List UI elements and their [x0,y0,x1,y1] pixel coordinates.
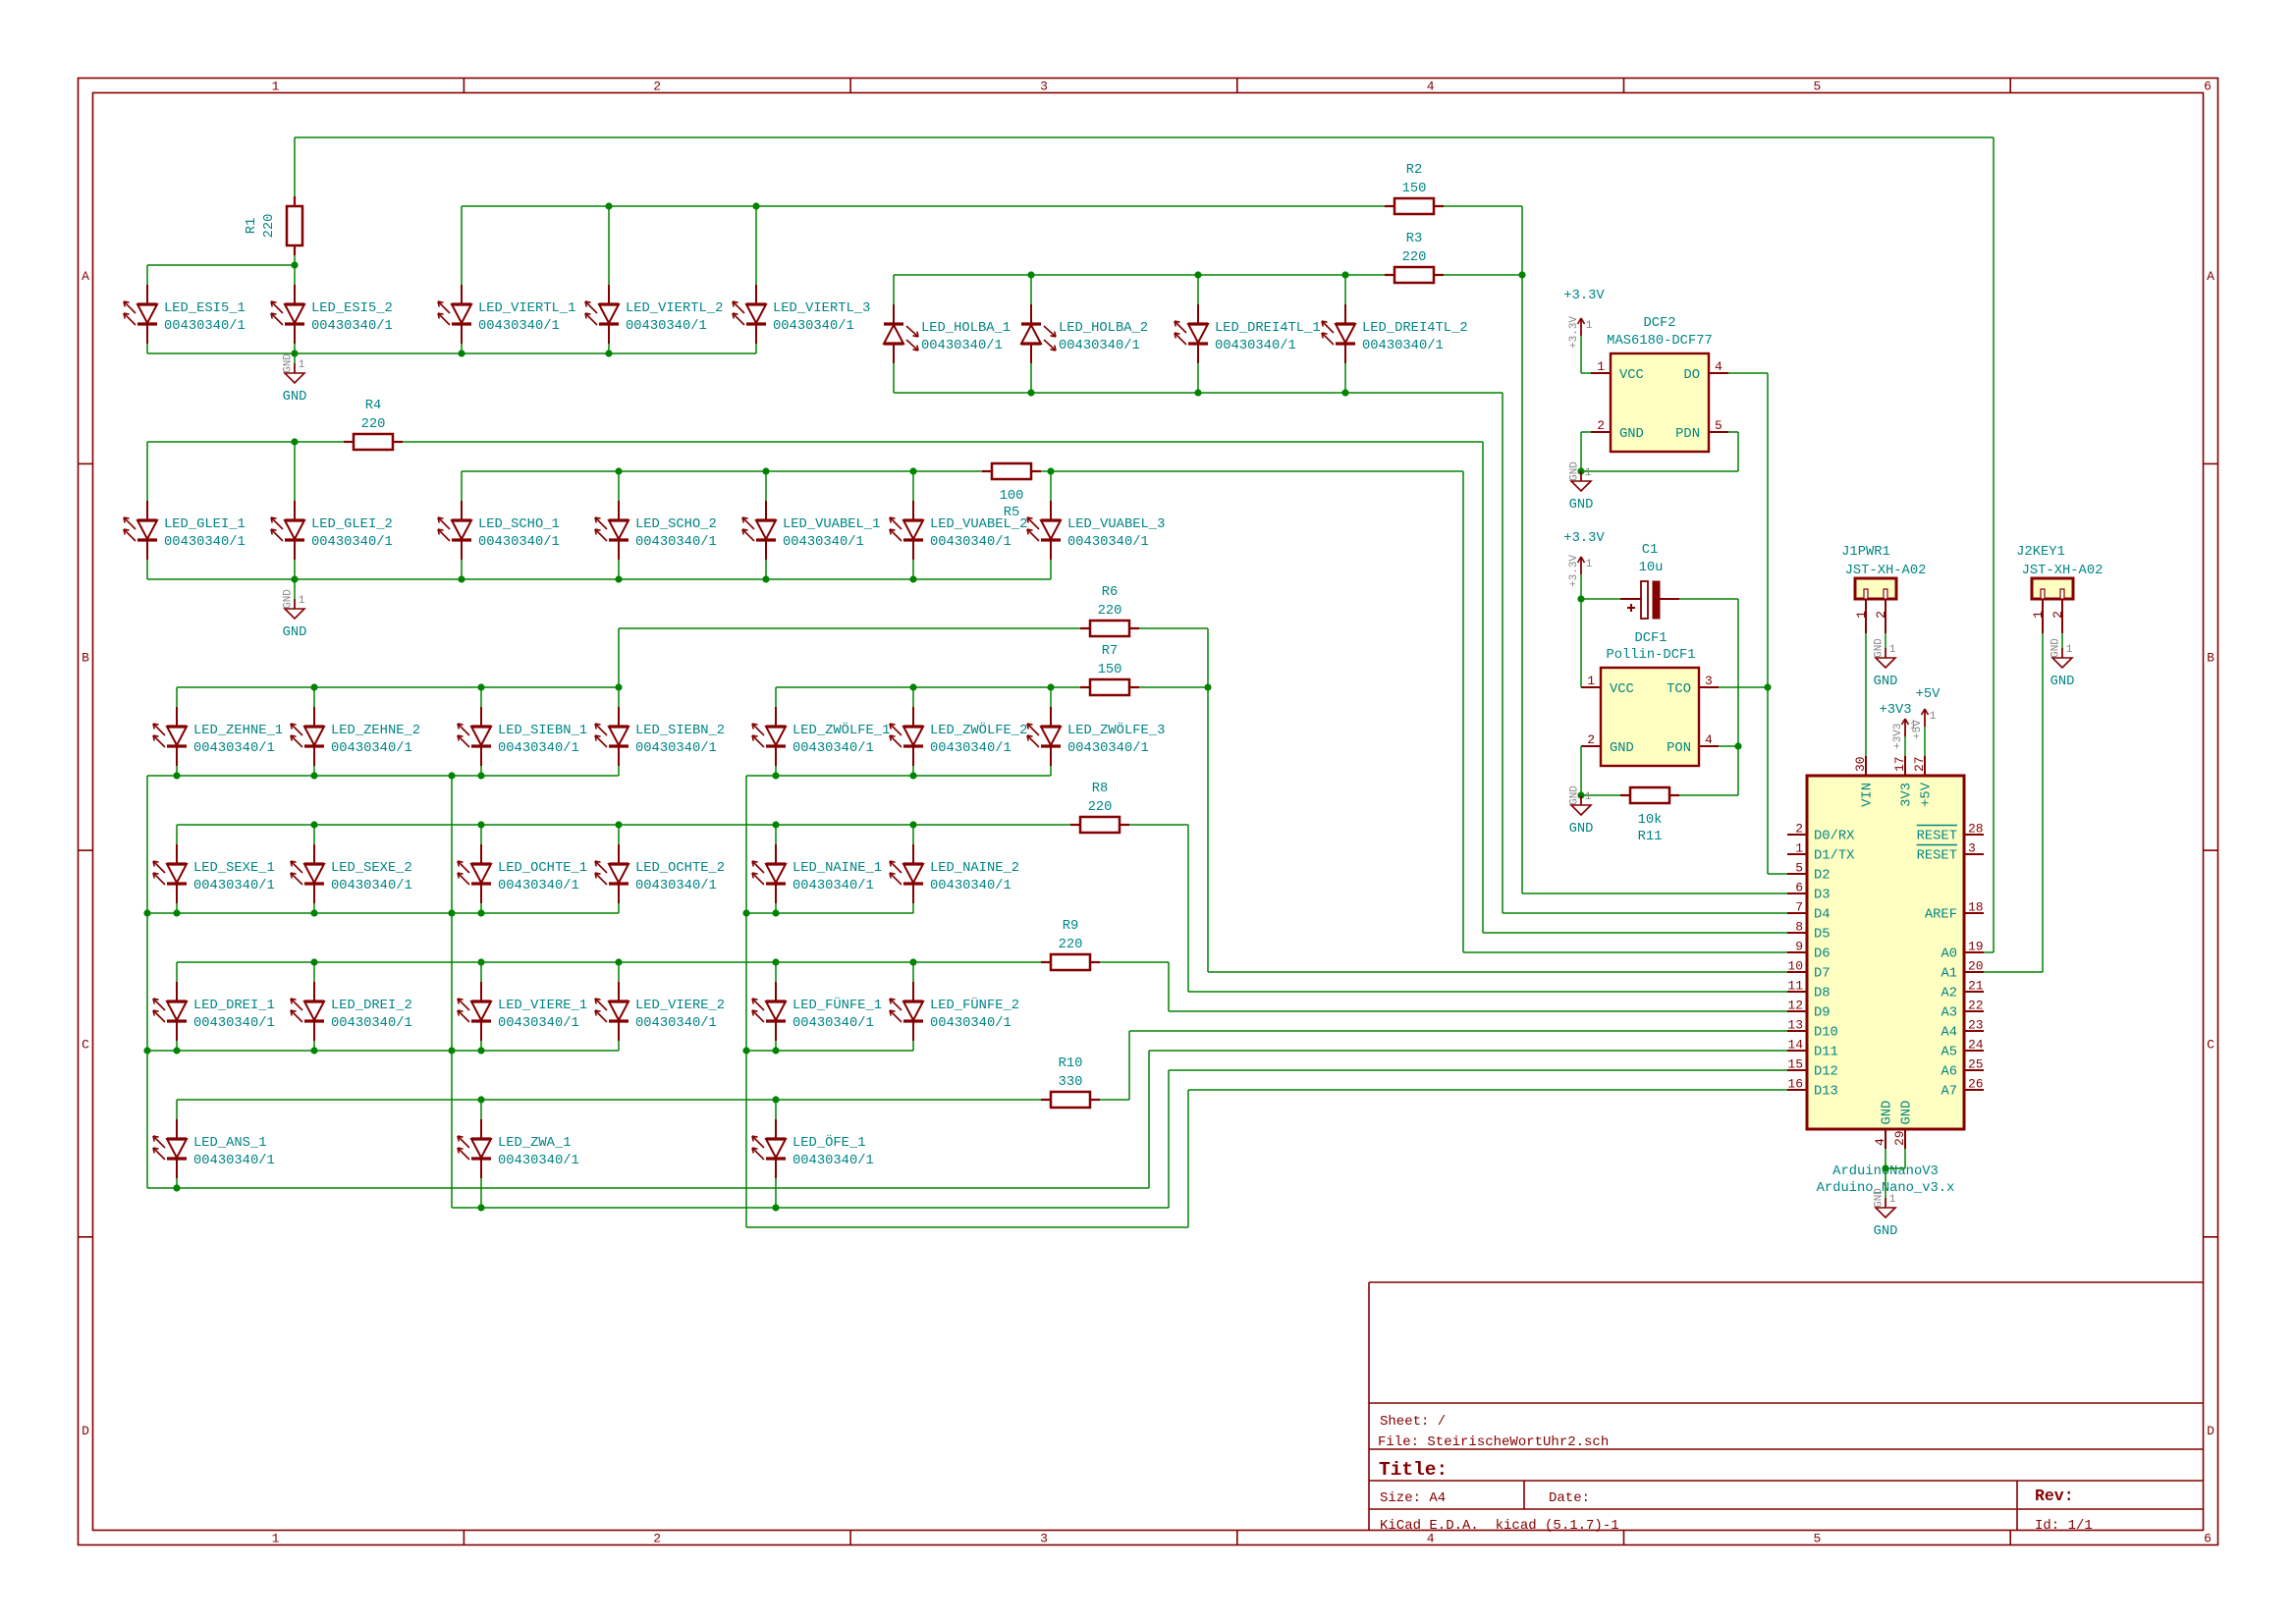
wire R6 out [1139,627,1208,629]
wire ANS cathode drop [176,1178,178,1188]
wire R10 out [1100,1099,1129,1101]
wire SCHO anode bus [462,470,982,472]
svg-text:5: 5 [1813,1532,1821,1546]
svg-text:GND: GND [1900,1101,1915,1125]
svg-text:LED_ZWÖLFE_1: LED_ZWÖLFE_1 [793,721,890,738]
svg-text:B: B [2207,651,2214,666]
LED LED_ZEHNE_1 [153,707,283,766]
junction [477,1204,484,1211]
LED LED_ESI5_1 [124,285,246,344]
svg-text:29: 29 [1892,1130,1907,1146]
svg-text:7: 7 [1795,900,1803,915]
ArduinoNano value [1817,1180,1955,1196]
svg-text:00430340/1: 00430340/1 [793,740,874,756]
power +3V3 [1879,703,1916,749]
wire DCF2 GND bus [1581,470,1738,472]
svg-text:JST-XH-A02: JST-XH-A02 [1845,564,1927,578]
wire net D13 riser [1187,1090,1189,1227]
wire row4 cathode drop [480,903,482,913]
svg-text:LED_ÖFE_1: LED_ÖFE_1 [793,1133,866,1151]
svg-text:220: 220 [1402,250,1427,265]
svg-text:GND: GND [2050,638,2062,658]
wire ZWOELFE anode drop [912,687,914,707]
svg-text:D0/RX: D0/RX [1814,829,1855,844]
junction [477,683,484,690]
wire ZEHNE cathode drop [313,766,315,776]
junction [772,1047,779,1054]
LED LED_VIERTL_1 [438,285,575,344]
wire J1 pin1 to VIN [1865,633,1867,756]
svg-text:GND: GND [1569,785,1581,805]
wire 5V stub [1924,727,1926,756]
junction [1577,595,1584,602]
ground [1874,1188,1898,1239]
svg-text:D2: D2 [1814,869,1831,884]
resistor R8 [1070,782,1129,833]
capacitor C1 [1581,543,1738,619]
svg-text:Title:: Title: [1379,1459,1448,1481]
IC DCF2 MAS6180-DCF77 [1591,316,1728,452]
wire ZEHNE cathode drop [480,766,482,776]
svg-text:D7: D7 [1814,967,1831,982]
wire net D9 run [1169,1010,1787,1012]
svg-text:J2KEY1: J2KEY1 [2016,545,2065,560]
wire DCF2 PDN riser [1737,432,1739,471]
svg-text:00430340/1: 00430340/1 [930,534,1011,550]
svg-text:LED_NAINE_2: LED_NAINE_2 [930,861,1019,876]
svg-text:LED_HOLBA_2: LED_HOLBA_2 [1059,321,1148,336]
wire VIERTL anode bus [462,205,1385,207]
wire net D10 run [1129,1030,1787,1032]
svg-text:A2: A2 [1941,987,1957,1001]
wire row5 cathode bus A [147,1050,619,1052]
svg-text:00430340/1: 00430340/1 [498,1015,579,1031]
svg-text:10u: 10u [1639,561,1664,575]
LED LED_ZWÖLFE_2 [890,707,1027,766]
wire VUABEL_3 anode drop [1050,471,1052,501]
IC DCF1 Pollin-DCF1 [1581,631,1719,766]
LED LED_VIERTL_2 [585,285,723,344]
wire GLEI_2 anode drop [294,442,296,501]
svg-text:VIN: VIN [1861,783,1876,807]
wire row5 cathode bus B [746,1050,913,1052]
wire SCHO cathode drop [912,560,914,579]
svg-text:00430340/1: 00430340/1 [193,878,275,893]
wire GLEI anode bus [147,441,344,443]
junction [1341,271,1348,278]
junction [173,772,180,779]
svg-text:00430340/1: 00430340/1 [783,534,864,550]
svg-text:12: 12 [1787,999,1803,1013]
wire ESI5_2 anode drop [294,265,296,285]
svg-text:LED_VIERTL_2: LED_VIERTL_2 [626,301,723,316]
wire row4 cathode bus B [746,912,913,914]
junction [772,958,779,965]
svg-text:9: 9 [1795,940,1803,954]
wire net D12 riser [1168,1070,1170,1208]
wire row4 cathode drop [618,903,620,913]
svg-text:16: 16 [1787,1077,1803,1092]
wire row5 cathode drop [176,1041,178,1051]
wire J2 pin2 gnd stub [2061,633,2063,648]
svg-text:LED_ZWÖLFE_3: LED_ZWÖLFE_3 [1067,721,1165,738]
svg-text:JST-XH-A02: JST-XH-A02 [2022,564,2104,578]
svg-text:19: 19 [1968,940,1984,954]
wire net D12 run [1169,1069,1787,1071]
wire row5 cathode drop [618,1041,620,1051]
LED LED_OCHTE_2 [595,844,725,903]
junction [310,772,317,779]
svg-text:1: 1 [1889,644,1896,656]
wire DCF2 VCC riser [1580,336,1582,373]
svg-text:00430340/1: 00430340/1 [793,1153,874,1168]
wire J2 pin1 drop [2042,633,2044,972]
junction [615,467,622,474]
svg-text:GND: GND [1569,822,1594,837]
svg-text:5: 5 [1795,861,1803,876]
wire row4 cathode drop [176,903,178,913]
svg-text:3V3: 3V3 [1900,783,1915,807]
svg-text:RESET: RESET [1917,849,1957,864]
LED LED_DREI_1 [153,982,275,1041]
junction [143,909,150,916]
svg-text:LED_NAINE_1: LED_NAINE_1 [793,861,882,876]
svg-text:LED_FÜNFE_2: LED_FÜNFE_2 [930,996,1019,1013]
ground [1874,638,1898,689]
wire cathode chain x760 [745,776,747,1227]
wire chain x760 bottom run [746,1226,1188,1228]
wire HOLBA top drop [893,275,895,304]
svg-text:R8: R8 [1092,782,1109,796]
svg-text:4: 4 [1705,732,1713,747]
svg-text:00430340/1: 00430340/1 [793,878,874,893]
svg-text:00430340/1: 00430340/1 [164,318,246,334]
wire VIERTL anode drop [608,206,610,285]
svg-text:Rev:: Rev: [2035,1487,2074,1505]
wire row4 cathode drop [912,903,914,913]
svg-text:D: D [2207,1424,2214,1438]
wire row3 cathode bus B [746,775,1051,777]
svg-text:00430340/1: 00430340/1 [635,534,717,550]
svg-text:A3: A3 [1941,1006,1957,1021]
svg-text:C1: C1 [1642,543,1659,558]
wire ESI5_1 cathode [146,344,148,353]
svg-text:Date:: Date: [1549,1490,1590,1506]
wire DCF2 DO [1728,372,1768,374]
wire row4 anode drop [912,825,914,844]
svg-text:D9: D9 [1814,1006,1831,1021]
svg-text:00430340/1: 00430340/1 [635,1015,717,1031]
svg-text:GND: GND [1881,1101,1895,1125]
svg-text:00430340/1: 00430340/1 [478,318,560,334]
wire R6 riser [618,628,620,687]
svg-text:+5V: +5V [1920,782,1935,807]
svg-text:3: 3 [1040,1532,1048,1546]
svg-text:+5V: +5V [1916,687,1941,702]
wire R3 out [1444,274,1522,276]
wire net A0 riser [1993,137,1995,952]
svg-text:27: 27 [1912,756,1927,772]
resistor R10 [1041,1056,1100,1108]
junction [173,909,180,916]
junction [291,575,298,582]
svg-text:GND: GND [2050,675,2075,689]
wire row5 anode drop [912,962,914,982]
junction [477,909,484,916]
LED LED_VUABEL_2 [890,501,1027,560]
wire net D8 riser [1187,825,1189,992]
svg-text:2: 2 [1874,611,1888,619]
svg-text:5: 5 [1813,80,1821,94]
wire GLEI_1 cathode [146,560,148,579]
svg-text:J1PWR1: J1PWR1 [1841,545,1890,560]
wire net DCF riser [1767,373,1769,874]
junction [310,1047,317,1054]
svg-text:4: 4 [1715,359,1722,374]
svg-text:4: 4 [1427,80,1435,94]
svg-text:00430340/1: 00430340/1 [311,318,393,334]
wire net D9 riser [1168,962,1170,1011]
svg-text:+3.3V: +3.3V [1563,531,1605,546]
junction [1882,1164,1888,1171]
svg-text:A1: A1 [1941,967,1957,982]
wire VIERTL cathode drop [755,344,757,353]
svg-text:LED_SIEBN_2: LED_SIEBN_2 [635,724,725,738]
svg-text:GND: GND [283,625,307,640]
junction [1577,791,1584,798]
resistor R11 [1620,787,1679,844]
wire net D5 run [1483,932,1787,934]
LED LED_DREI4TL_2 [1322,304,1468,363]
junction [772,909,779,916]
svg-text:LED_SIEBN_1: LED_SIEBN_1 [498,724,587,738]
svg-text:10: 10 [1787,959,1803,974]
svg-text:D12: D12 [1814,1065,1838,1080]
power +3.3V [1563,289,1605,349]
junction [173,1184,180,1191]
svg-text:LED_VUABEL_1: LED_VUABEL_1 [783,517,880,532]
svg-text:15: 15 [1787,1057,1803,1072]
wire row5 cathode drop [775,1041,777,1051]
junction [310,821,317,828]
svg-text:C: C [2207,1038,2214,1053]
svg-text:D10: D10 [1814,1026,1838,1041]
wire R11 riser [1737,746,1739,795]
junction [458,350,465,356]
svg-text:5: 5 [1715,418,1722,433]
svg-text:D11: D11 [1814,1046,1838,1060]
wire R9 out [1100,961,1169,963]
svg-text:17: 17 [1892,756,1907,772]
ground [283,353,307,405]
svg-text:D6: D6 [1814,947,1831,962]
junction [1577,467,1584,474]
wire net D3 riser [1521,206,1523,893]
junction [1734,742,1741,749]
wire row6 anode drop [775,1100,777,1119]
svg-text:00430340/1: 00430340/1 [1215,338,1296,353]
wire ZEHNE cathode drop [618,766,620,776]
svg-text:R7: R7 [1102,644,1119,659]
wire SCHO cathode drop [461,560,463,579]
wire row5 anode drop [176,962,178,982]
resistor R5 [982,463,1041,520]
wire ZEHNE anode drop [313,687,315,707]
svg-text:A6: A6 [1941,1065,1957,1080]
wire ZEHNE anode bus [177,686,619,688]
svg-text:26: 26 [1968,1077,1984,1092]
junction [772,1204,779,1211]
svg-text:LED_OCHTE_1: LED_OCHTE_1 [498,861,587,876]
svg-text:1: 1 [1586,559,1593,570]
svg-text:00430340/1: 00430340/1 [1067,740,1149,756]
svg-text:150: 150 [1402,182,1427,196]
junction [1027,389,1034,396]
svg-text:LED_VIERTL_3: LED_VIERTL_3 [773,301,870,316]
LED LED_ESI5_2 [271,285,393,344]
wire DCF1 TCO [1719,686,1768,688]
wire DCF1 VCC riser [1580,599,1582,687]
junction [477,1047,484,1054]
LED LED_VUABEL_1 [742,501,880,560]
svg-text:LED_ZEHNE_2: LED_ZEHNE_2 [331,724,420,738]
svg-text:+3.3V: +3.3V [1568,316,1580,349]
svg-text:File: SteirischeWortUhr2.sch: File: SteirischeWortUhr2.sch [1378,1434,1609,1450]
ArduinoNano bottom pins [1873,1101,1915,1149]
svg-text:8: 8 [1795,920,1803,935]
junction [772,1096,779,1103]
svg-text:LED_VIERE_2: LED_VIERE_2 [635,999,725,1013]
resistor R6 [1080,585,1139,636]
wire row4 cathode drop [313,903,315,913]
junction [772,821,779,828]
junction [173,1047,180,1054]
svg-text:LED_ZWA_1: LED_ZWA_1 [498,1136,572,1151]
wire HOLBA top drop [1030,275,1032,304]
svg-text:+3V3: +3V3 [1892,724,1904,749]
svg-text:GND: GND [1569,461,1581,481]
title block title label [1379,1459,1448,1481]
svg-text:LED_GLEI_1: LED_GLEI_1 [164,517,246,532]
wire row4 anode drop [313,825,315,844]
svg-text:00430340/1: 00430340/1 [498,1153,579,1168]
wire gnd stub row1 [294,353,296,363]
ArduinoNano top pins [1853,756,1935,807]
svg-text:00430340/1: 00430340/1 [478,534,560,550]
wire DCF2 GND drop [1580,432,1582,471]
wire row5 cathode drop [912,1041,914,1051]
svg-text:LED_GLEI_2: LED_GLEI_2 [311,517,393,532]
svg-text:3: 3 [1968,841,1976,856]
svg-text:1: 1 [1585,791,1592,803]
svg-text:DO: DO [1683,368,1700,383]
svg-text:D5: D5 [1814,928,1831,943]
svg-text:00430340/1: 00430340/1 [193,740,275,756]
wire net A1 run [1984,971,2043,973]
LED LED_ZWA_1 [458,1119,579,1178]
svg-text:2: 2 [653,80,661,94]
wire HOLBA top drop [1197,275,1199,304]
svg-text:1: 1 [1587,674,1595,688]
svg-text:+3.3V: +3.3V [1563,289,1605,303]
wire net D7 riser [1207,687,1209,972]
junction [1047,467,1054,474]
title block kicad text [1380,1518,1619,1534]
junction [615,683,622,690]
svg-text:1: 1 [1889,1194,1896,1206]
svg-text:C: C [82,1038,89,1053]
wire VIERTL anode drop [755,206,757,285]
wire R8 out [1129,824,1188,826]
wire HOLBA bottom bus [894,392,1503,394]
svg-text:D3: D3 [1814,889,1831,903]
svg-text:00430340/1: 00430340/1 [164,534,246,550]
LED LED_ANS_1 [153,1119,275,1178]
wire net D13 run [1188,1089,1787,1091]
svg-text:D1/TX: D1/TX [1814,848,1855,864]
svg-text:00430340/1: 00430340/1 [930,1015,1011,1031]
wire net D6 run [1463,951,1787,953]
svg-text:22: 22 [1968,999,1984,1013]
wire DCF1 PON [1719,745,1738,747]
junction [615,575,622,582]
junction [752,202,759,209]
svg-text:30: 30 [1853,756,1868,772]
LED LED_VIERTL_3 [733,285,870,344]
svg-text:Pollin-DCF1: Pollin-DCF1 [1606,647,1695,663]
junction [605,350,612,356]
wire R6 out drop [1207,628,1209,687]
wire net D2 run [1768,873,1787,875]
wire VIERTL cathode drop [461,344,463,353]
wire ZWOELFE anode bus [776,686,1080,688]
svg-text:+3.3V: +3.3V [1568,555,1580,587]
wire ZEHNE anode drop [176,687,178,707]
wire HOLBA top drop [1344,275,1346,304]
resistor R1 [245,196,302,255]
wire net D3 run [1522,893,1787,894]
LED LED_NAINE_1 [752,844,882,903]
svg-text:VCC: VCC [1619,368,1644,383]
LED LED_DREI_2 [291,982,412,1041]
svg-text:D13: D13 [1814,1085,1838,1100]
junction [477,958,484,965]
wire cathode chain x460 [451,776,453,1208]
wire ZWOELFE anode drop [1050,687,1052,707]
junction [458,575,465,582]
svg-text:Sheet: /: Sheet: / [1380,1414,1446,1430]
wire R4 out [403,441,1483,443]
junction [615,958,622,965]
LED LED_VUABEL_3 [1027,501,1165,560]
wire net D5 riser [1482,442,1484,933]
junction [477,1096,484,1103]
svg-text:3: 3 [1040,80,1048,94]
svg-text:24: 24 [1968,1038,1984,1053]
LED LED_SEXE_1 [153,844,275,903]
svg-text:1: 1 [299,359,305,371]
svg-text:330: 330 [1059,1075,1083,1090]
svg-text:VCC: VCC [1610,682,1634,697]
svg-text:220: 220 [1088,800,1113,815]
svg-text:R9: R9 [1063,919,1079,934]
svg-text:LED_SCHO_1: LED_SCHO_1 [478,517,560,532]
wire J1 pin2 gnd stub [1885,633,1886,648]
wire net A0 top run [295,136,1994,138]
svg-text:PON: PON [1667,741,1691,756]
junction [291,438,298,445]
svg-text:GND: GND [1874,1188,1886,1208]
